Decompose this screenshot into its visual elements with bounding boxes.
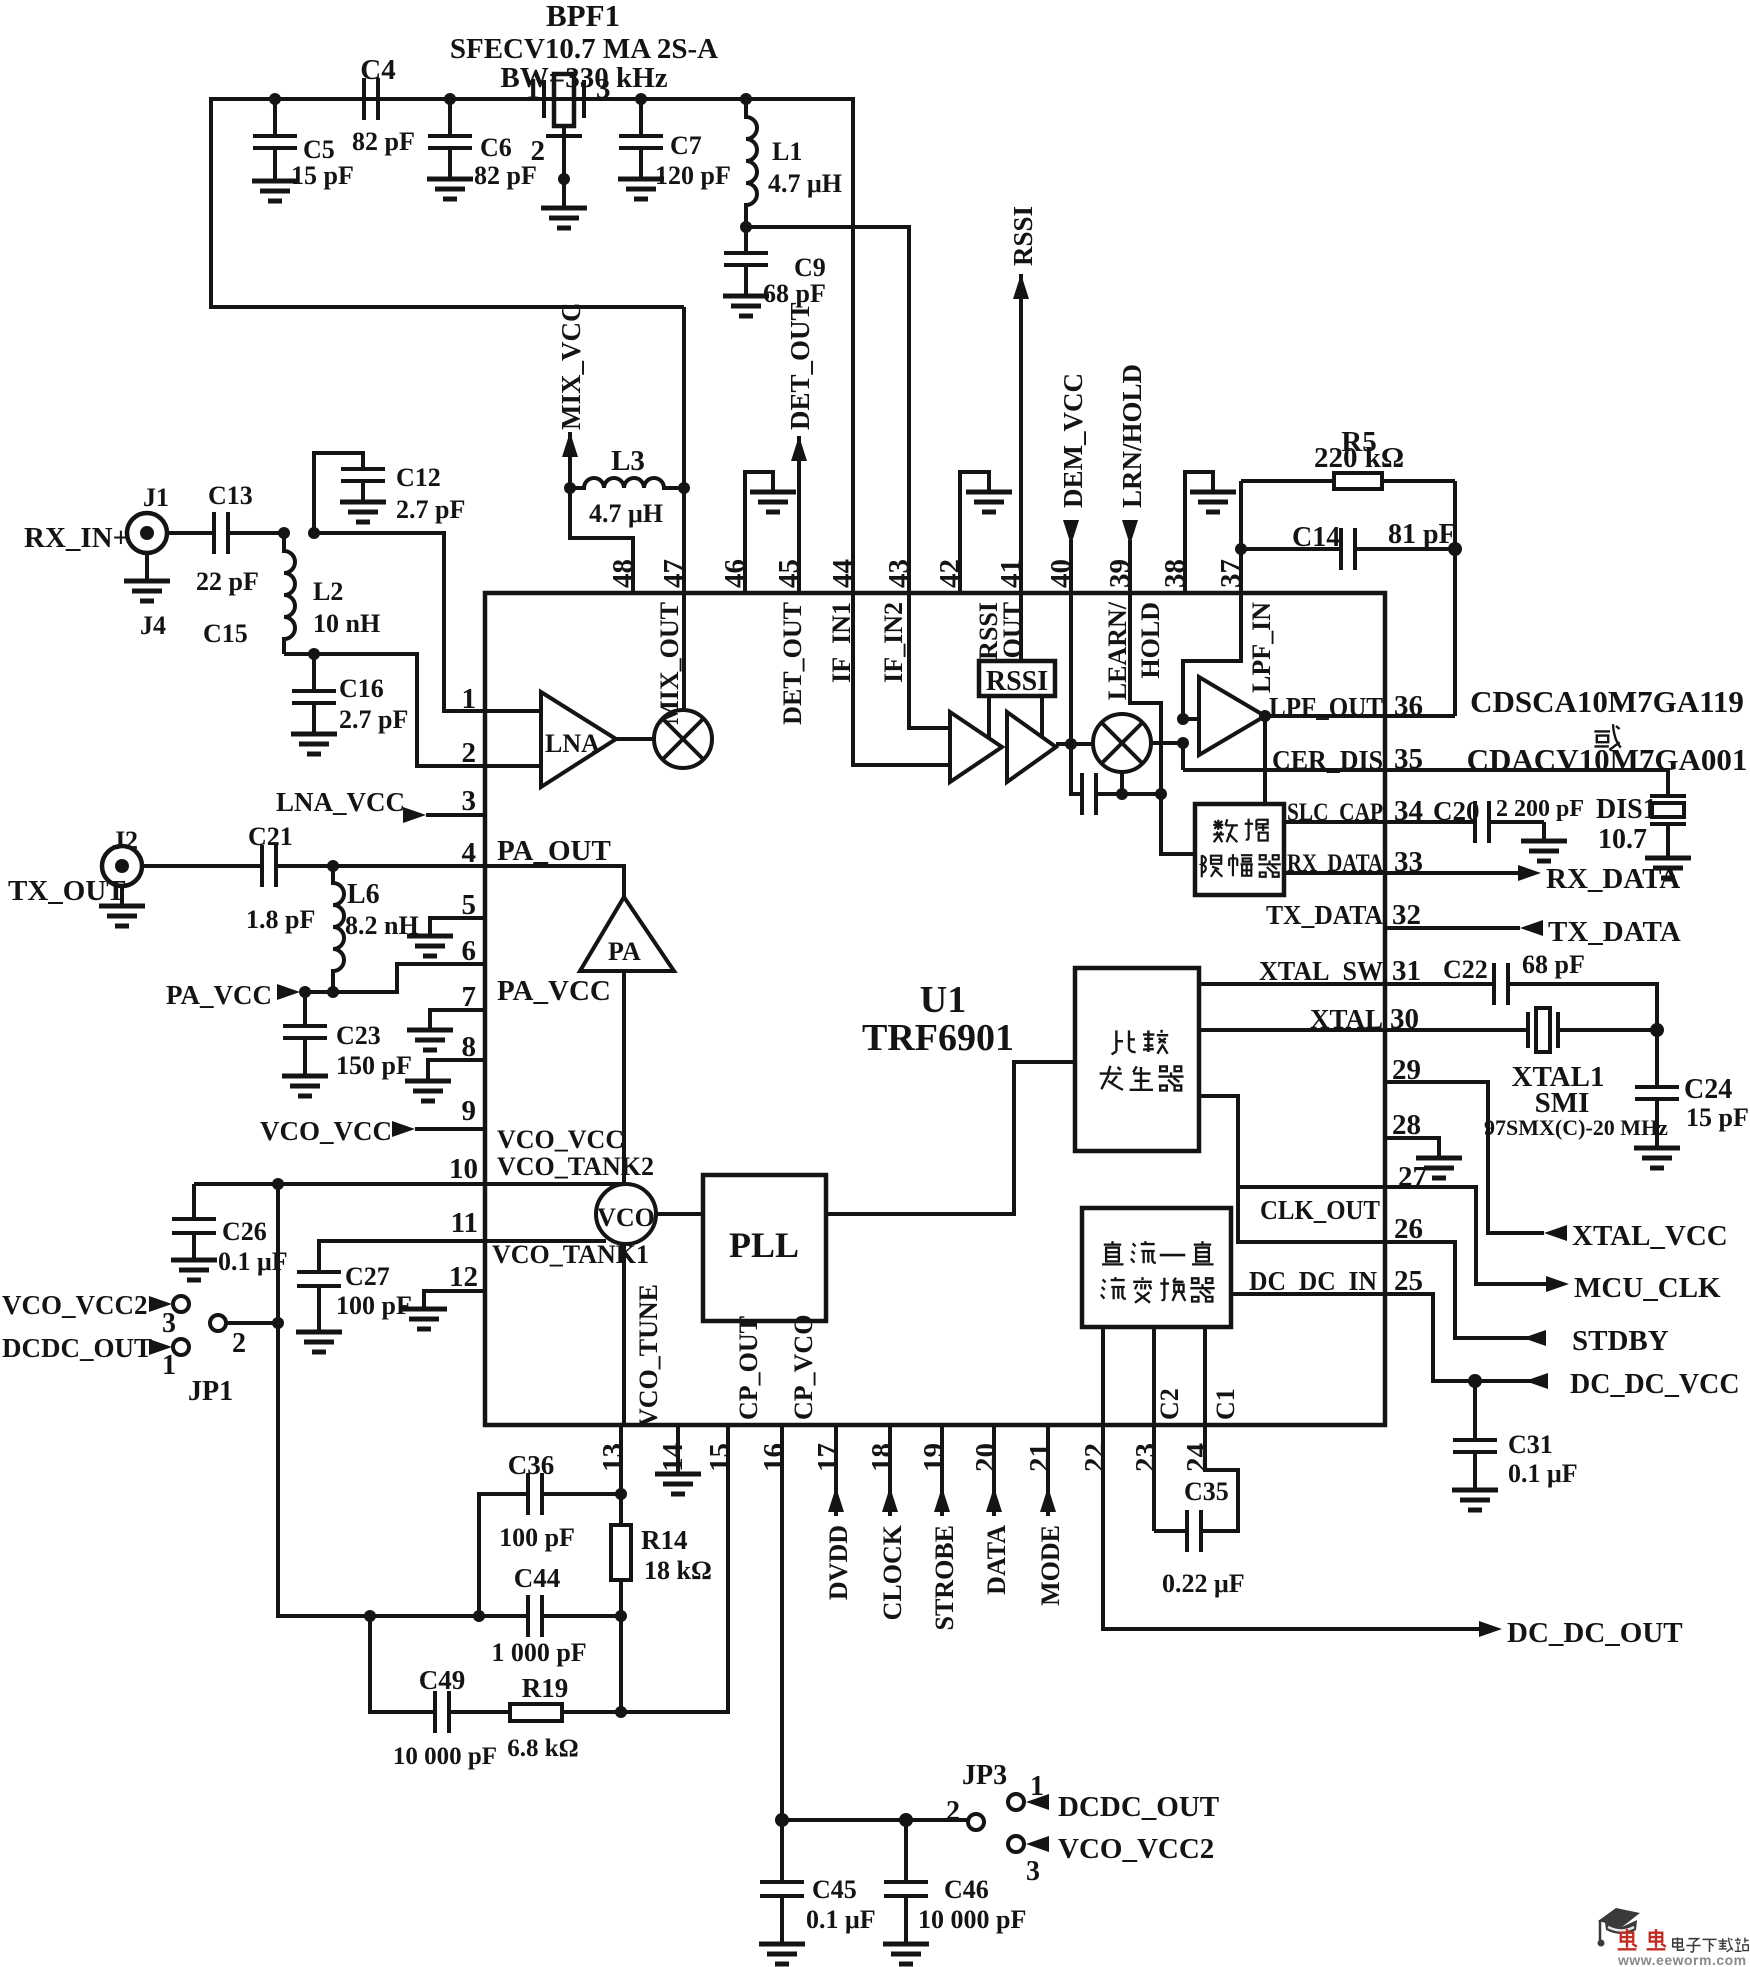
ground — [252, 181, 298, 201]
svg-text:HOLD: HOLD — [1136, 602, 1165, 679]
svg-text:4.7 μH: 4.7 μH — [768, 169, 842, 198]
svg-text:18: 18 — [866, 1443, 898, 1472]
wire pin 44 to IF amp — [853, 593, 950, 765]
svg-text:DC_DC_IN: DC_DC_IN — [1249, 1266, 1377, 1296]
capacitor C14 — [1241, 547, 1341, 551]
svg-text:10.7: 10.7 — [1598, 824, 1647, 855]
node LPF amp input — [1177, 713, 1189, 725]
capacitor C5 — [273, 99, 277, 136]
ground — [655, 1474, 701, 1494]
svg-text:10 nH: 10 nH — [313, 609, 380, 638]
arrow LRN/HOLD pin 39 — [1130, 540, 1195, 854]
wire pin 24 C35 — [1201, 1425, 1238, 1531]
ground — [1645, 858, 1691, 878]
wire XTAL_SW inside — [1199, 982, 1385, 986]
wire pin 23 C35 — [1152, 1425, 1156, 1531]
ground — [401, 1309, 447, 1329]
node C12 branch — [308, 527, 320, 539]
svg-text:JP3: JP3 — [962, 1760, 1007, 1791]
svg-text:RSSI: RSSI — [986, 666, 1048, 697]
capacitor C13 — [212, 512, 216, 554]
capacitor C9 — [744, 227, 748, 253]
wire pin 13 — [619, 1425, 623, 1494]
wire pin 28 ground stub — [1385, 1138, 1439, 1156]
wire DC_DC_IN inside — [1231, 1292, 1385, 1296]
wire top loop — [211, 99, 853, 593]
ground — [171, 1260, 217, 1280]
svg-text:44: 44 — [827, 559, 859, 588]
ground — [618, 179, 664, 199]
svg-text:DVDD: DVDD — [824, 1525, 853, 1600]
wire pin 29 to XTAL_VCC — [1385, 1082, 1544, 1233]
wire pin 4 to PA — [485, 866, 624, 897]
watermark chongchong text — [1618, 1929, 1666, 1949]
svg-text:10 000 pF: 10 000 pF — [918, 1905, 1026, 1934]
capacitor C22 — [1492, 963, 1496, 1005]
svg-text:STDBY: STDBY — [1572, 1325, 1669, 1357]
wire R14 node down — [619, 1616, 623, 1712]
wire XTAL_SW pin 31 — [1385, 982, 1494, 986]
wire SLC_CAP pin 34 — [1284, 820, 1475, 824]
wire pin 42 ground stub — [960, 472, 989, 593]
wire pin2 to LNA — [485, 764, 541, 768]
svg-text:RSSI: RSSI — [1008, 206, 1038, 266]
svg-text:22: 22 — [1079, 1443, 1111, 1472]
node C49 branch — [364, 1610, 376, 1622]
node L1 top — [740, 93, 752, 105]
svg-text:1 000 pF: 1 000 pF — [491, 1638, 586, 1667]
svg-text:C27: C27 — [345, 1262, 390, 1291]
svg-text:LEARN/: LEARN/ — [1103, 601, 1132, 700]
node LPF out — [1259, 710, 1271, 722]
ground J4 — [124, 581, 170, 601]
ground — [291, 734, 337, 754]
svg-text:C7: C7 — [670, 131, 702, 160]
svg-text:www.eeworm.com: www.eeworm.com — [1617, 1952, 1747, 1967]
svg-text:C9: C9 — [794, 253, 826, 282]
wire J2 to C21 — [142, 864, 262, 868]
svg-text:U1: U1 — [920, 979, 966, 1021]
svg-text:XTAL_VCC: XTAL_VCC — [1572, 1220, 1728, 1252]
svg-text:DEM_VCC: DEM_VCC — [1058, 373, 1088, 508]
resistor R19 — [510, 1704, 562, 1721]
svg-text:STROBE: STROBE — [930, 1525, 959, 1631]
connector JP3 pin3 — [1008, 1836, 1024, 1852]
amplifier PA — [580, 897, 674, 971]
wire XTAL inside — [1199, 1028, 1385, 1032]
wire LPF_IN jog pin 37 — [1183, 593, 1241, 719]
ground — [541, 208, 587, 228]
svg-text:7: 7 — [462, 981, 477, 1013]
svg-text:J2: J2 — [112, 826, 138, 855]
svg-text:C2: C2 — [1155, 1388, 1184, 1420]
capacitor C23 — [303, 992, 307, 1026]
svg-text:100 pF: 100 pF — [499, 1523, 575, 1552]
node C44 left — [473, 1610, 485, 1622]
arrowhead STROBE — [934, 1487, 950, 1512]
node C36 right — [615, 1488, 627, 1500]
wire CER_DIS pin 35 — [1183, 770, 1668, 796]
svg-text:82 pF: 82 pF — [474, 161, 537, 190]
capacitor C12 — [341, 467, 385, 471]
inductor L3 — [570, 478, 684, 488]
svg-text:1: 1 — [162, 1350, 176, 1381]
svg-text:VCO_VCC2: VCO_VCC2 — [1058, 1833, 1214, 1865]
crystal XTAL1 — [1526, 1012, 1530, 1048]
svg-text:3: 3 — [1026, 1856, 1040, 1887]
svg-text:C31: C31 — [1508, 1430, 1553, 1459]
label data limiter — [1202, 819, 1281, 878]
wire to pin 1 — [314, 533, 485, 711]
svg-text:1.8 pF: 1.8 pF — [246, 905, 315, 934]
svg-text:MCU_CLK: MCU_CLK — [1574, 1272, 1721, 1304]
wire pin 43 to IF amp — [909, 593, 950, 728]
svg-text:15 pF: 15 pF — [291, 161, 354, 190]
svg-text:DET_OUT: DET_OUT — [778, 602, 807, 725]
wire to pin 2 — [314, 654, 485, 766]
svg-text:DC_DC_OUT: DC_DC_OUT — [1507, 1617, 1683, 1649]
connector J1 — [127, 513, 167, 553]
svg-text:DCDC_OUT: DCDC_OUT — [2, 1333, 152, 1363]
svg-text:3: 3 — [462, 785, 477, 817]
svg-text:C13: C13 — [208, 481, 253, 510]
wire mixer bottom — [1120, 772, 1124, 794]
wire to LPF amp — [1183, 717, 1199, 721]
mixer M2 — [1093, 714, 1151, 772]
svg-text:2: 2 — [946, 1796, 960, 1827]
node BPF out — [635, 93, 647, 105]
ground — [99, 906, 145, 926]
capacitor C7 — [639, 99, 643, 136]
arrow DCDC_OUT jp3 — [1026, 1794, 1049, 1810]
wire pin1 to LNA — [485, 709, 541, 713]
svg-text:12: 12 — [449, 1261, 478, 1293]
svg-text:15 pF: 15 pF — [1686, 1103, 1749, 1132]
svg-text:MIX_VCC: MIX_VCC — [556, 303, 586, 431]
capacitor C16 — [312, 654, 316, 691]
svg-text:C35: C35 — [1184, 1477, 1229, 1506]
svg-text:PA_VCC: PA_VCC — [497, 975, 611, 1007]
svg-text:C20: C20 — [1433, 796, 1480, 826]
arrow DET_OUT pin 45 — [797, 436, 801, 593]
wire LPF_OUT pin 36 — [1265, 714, 1455, 718]
svg-text:2.7 pF: 2.7 pF — [396, 495, 465, 524]
resistor R5 — [1241, 479, 1334, 483]
wire pin 22 to DC_DC_OUT — [1103, 1425, 1479, 1629]
connector JP3 pin2 — [968, 1814, 984, 1830]
svg-text:PLL: PLL — [729, 1225, 799, 1265]
svg-text:2 200 pF: 2 200 pF — [1496, 796, 1584, 822]
arrow DATA pin 20 — [992, 1425, 996, 1516]
svg-text:PA_VCC: PA_VCC — [166, 980, 272, 1010]
wire pin 27 to MCU_CLK — [1385, 1187, 1546, 1284]
svg-text:LNA_VCC: LNA_VCC — [276, 787, 405, 817]
wire pin 25 to DC_DC_VCC — [1385, 1294, 1548, 1381]
svg-text:CDSCA10M7GA119: CDSCA10M7GA119 — [1470, 684, 1744, 719]
svg-text:SFECV10.7 MA 2S-A: SFECV10.7 MA 2S-A — [450, 33, 718, 65]
pin 2 of BPF1 — [562, 126, 566, 136]
capacitor C6 — [448, 99, 452, 136]
svg-text:C12: C12 — [396, 463, 441, 492]
node L2 top — [278, 527, 290, 539]
svg-text:C4: C4 — [360, 54, 395, 86]
arrowhead CLOCK — [882, 1487, 898, 1512]
node C16 top — [308, 648, 320, 660]
wire comparator to pins 27 26 — [1199, 1096, 1385, 1242]
wire PA to VCO — [622, 971, 626, 1184]
connector JP1 pin2 — [226, 1321, 278, 1325]
capacitor C46 — [904, 1820, 908, 1882]
svg-text:220 kΩ: 220 kΩ — [1314, 442, 1404, 474]
wire VCO tune down — [622, 1244, 626, 1425]
wire XTAL pin 30 — [1385, 1028, 1528, 1032]
svg-text:IF_IN2: IF_IN2 — [879, 602, 908, 683]
svg-text:TX_OUT: TX_OUT — [8, 875, 126, 907]
capacitor C4 — [355, 97, 364, 101]
amplifier LNA — [541, 692, 616, 787]
node L3 left — [564, 482, 576, 494]
node C44 right — [615, 1610, 627, 1622]
svg-text:8.2 nH: 8.2 nH — [345, 911, 419, 940]
amplifier LPF — [1199, 677, 1265, 755]
node DEM_VCC — [1065, 738, 1077, 750]
svg-text:VCO_TANK2: VCO_TANK2 — [497, 1152, 654, 1181]
ground — [1634, 1148, 1680, 1168]
ground — [282, 1076, 328, 1096]
svg-text:14: 14 — [657, 1443, 689, 1472]
node C6 top — [444, 93, 456, 105]
label comparator — [1100, 1030, 1184, 1091]
svg-text:C44: C44 — [514, 1563, 561, 1593]
wire JP1 vertical — [278, 1184, 370, 1616]
wire pin 16 down — [780, 1425, 784, 1820]
svg-text:L1: L1 — [772, 137, 802, 166]
arrow STROBE pin 19 — [940, 1425, 944, 1516]
svg-text:LNA: LNA — [545, 729, 600, 758]
wire TX_DATA pin 32 — [1385, 926, 1520, 930]
arrow MODE pin 21 — [1046, 1425, 1050, 1516]
node C31 — [1468, 1374, 1482, 1388]
connector J2 — [102, 846, 142, 886]
svg-text:VCO_VCC: VCO_VCC — [260, 1116, 392, 1146]
svg-text:C15: C15 — [203, 619, 248, 648]
svg-text:VCO_VCC: VCO_VCC — [497, 1125, 624, 1154]
wire pin 46 ground stub — [745, 472, 773, 593]
crystal DIS1 — [1650, 794, 1686, 798]
svg-text:L3: L3 — [611, 445, 645, 477]
wire pin 47 line — [682, 307, 686, 710]
svg-text:J1: J1 — [143, 483, 169, 512]
wire RSSI stub right — [1040, 696, 1044, 738]
node XTAL right — [1650, 1023, 1664, 1037]
ground — [759, 1944, 805, 1964]
svg-text:18 kΩ: 18 kΩ — [644, 1556, 712, 1585]
svg-text:22 pF: 22 pF — [196, 567, 259, 596]
arrowhead DVDD — [828, 1487, 844, 1512]
svg-text:LRN/HOLD: LRN/HOLD — [1117, 364, 1147, 508]
svg-text:C49: C49 — [419, 1665, 466, 1695]
node PA_VCC — [299, 986, 311, 998]
wire pin 14 ground stub — [676, 1425, 680, 1472]
svg-text:DET_OUT: DET_OUT — [785, 302, 815, 430]
svg-text:24: 24 — [1181, 1443, 1213, 1472]
SEC_INSIDE — [1183, 473, 1691, 1510]
wire mixer right up — [1151, 743, 1183, 770]
svg-text:1: 1 — [526, 73, 541, 105]
svg-text:RX_DATA: RX_DATA — [1546, 863, 1680, 895]
svg-text:L2: L2 — [313, 577, 343, 606]
wire pin 48 jog — [570, 488, 633, 593]
svg-text:82 pF: 82 pF — [352, 127, 415, 156]
ground — [407, 936, 453, 956]
wire C13 to node — [228, 531, 284, 535]
watermark site name — [1673, 1937, 1749, 1952]
svg-text:0.1 μF: 0.1 μF — [1508, 1459, 1578, 1488]
wire RX_DATA pin 33 — [1284, 871, 1518, 875]
wire pin 12 ground stub — [424, 1291, 485, 1307]
svg-text:TX_DATA: TX_DATA — [1266, 900, 1383, 930]
svg-text:9: 9 — [462, 1095, 477, 1127]
capacitor C45 — [780, 1820, 784, 1882]
svg-text:C24: C24 — [1684, 1074, 1732, 1105]
resistor R14 — [619, 1494, 623, 1525]
svg-text:TRF6901: TRF6901 — [862, 1017, 1014, 1059]
svg-text:DATA: DATA — [982, 1525, 1011, 1595]
wire pin 10 — [485, 1182, 624, 1186]
svg-text:100 pF: 100 pF — [336, 1291, 412, 1320]
mixer M1 — [654, 710, 712, 768]
node C5 top — [269, 93, 281, 105]
capacitor C26 — [172, 1217, 216, 1221]
wire pin 10 to C26 — [194, 1182, 485, 1186]
svg-text:JP1: JP1 — [188, 1376, 233, 1407]
svg-text:BPF1: BPF1 — [546, 0, 620, 33]
svg-text:C5: C5 — [303, 135, 335, 164]
svg-text:C46: C46 — [944, 1875, 989, 1904]
arrow DEM_VCC pin 40 — [1069, 540, 1073, 747]
svg-text:R19: R19 — [522, 1673, 569, 1703]
node L3 right — [678, 482, 690, 494]
inductor L6 — [333, 866, 344, 992]
node L1 bottom — [740, 221, 752, 233]
amplifier IF2 — [1007, 712, 1056, 782]
svg-text:PA_OUT: PA_OUT — [497, 835, 611, 867]
ground — [1521, 841, 1567, 861]
svg-text:0.22 μF: 0.22 μF — [1162, 1569, 1245, 1598]
ground — [750, 492, 796, 512]
wire pin 37 to R5 loop — [1239, 481, 1243, 593]
svg-text:21: 21 — [1024, 1443, 1056, 1472]
arrow DVDD pin 17 — [834, 1425, 838, 1516]
svg-text:11: 11 — [451, 1207, 478, 1239]
wire R5 loop right — [1453, 481, 1457, 716]
svg-text:C26: C26 — [222, 1217, 267, 1246]
wire pin 26 to STDBY — [1385, 1242, 1546, 1338]
ground — [883, 1944, 929, 1964]
circle VCO — [596, 1184, 656, 1244]
wire C49 branch — [370, 1616, 435, 1712]
arrow RSSI pin 41 — [1019, 274, 1023, 661]
svg-text:17: 17 — [812, 1443, 844, 1472]
svg-text:TX_DATA: TX_DATA — [1548, 916, 1681, 948]
svg-text:MIX_OUT: MIX_OUT — [655, 602, 684, 725]
svg-text:VCO_TUNE: VCO_TUNE — [634, 1284, 663, 1427]
wire RSSI stub left — [987, 696, 991, 737]
connector JP1 pin1 — [173, 1339, 189, 1355]
wire PLL to comparator — [826, 1062, 1075, 1214]
capacitor C21 — [260, 845, 264, 887]
wire pin 8 ground stub — [428, 1060, 485, 1079]
svg-text:15: 15 — [704, 1443, 736, 1472]
svg-text:C22: C22 — [1443, 955, 1488, 984]
svg-text:XTAL_SW: XTAL_SW — [1259, 956, 1383, 986]
block PLL — [703, 1175, 826, 1321]
arrowhead DATA — [986, 1487, 1002, 1512]
svg-text:19: 19 — [918, 1443, 950, 1472]
svg-text:6: 6 — [462, 935, 477, 967]
ground — [723, 296, 769, 316]
wire C2 C1 pins down — [1101, 1327, 1105, 1425]
node JP1 branch — [272, 1178, 284, 1190]
svg-text:97SMX(C)-20 MHz: 97SMX(C)-20 MHz — [1484, 1115, 1668, 1140]
svg-text:6.8 kΩ: 6.8 kΩ — [507, 1735, 578, 1762]
wire to pin 43 — [746, 227, 909, 593]
wire LPF out to slicer — [1263, 716, 1267, 804]
wire JP1 row to C44 node — [370, 1614, 479, 1618]
wire C45 to JP3 — [782, 1818, 968, 1822]
wire to pin 15 — [621, 1425, 728, 1712]
ground — [340, 502, 386, 522]
svg-text:1: 1 — [1030, 1771, 1044, 1802]
svg-text:CLOCK: CLOCK — [878, 1524, 907, 1620]
wire pin 11 — [485, 1239, 606, 1243]
ground — [1452, 1490, 1498, 1510]
svg-text:13: 13 — [597, 1443, 629, 1472]
wire C21 to pin 4 — [276, 864, 485, 868]
svg-text:150 pF: 150 pF — [336, 1051, 412, 1080]
svg-text:VCO_VCC2: VCO_VCC2 — [2, 1290, 148, 1320]
svg-text:C21: C21 — [248, 822, 293, 851]
node R19 right — [615, 1706, 627, 1718]
svg-text:81 pF: 81 pF — [1388, 519, 1456, 550]
svg-text:J4: J4 — [140, 611, 166, 640]
svg-text:0.1 μF: 0.1 μF — [806, 1905, 876, 1934]
svg-text:R14: R14 — [641, 1525, 688, 1555]
svg-text:8: 8 — [462, 1031, 477, 1063]
svg-text:2.7 pF: 2.7 pF — [339, 705, 408, 734]
svg-text:68 pF: 68 pF — [1522, 950, 1585, 979]
wire LNA to mixer — [616, 737, 654, 741]
svg-text:23: 23 — [1130, 1443, 1162, 1472]
svg-text:3: 3 — [162, 1308, 176, 1339]
wire pin 11 to C27 — [319, 1241, 485, 1272]
block RSSI — [979, 661, 1055, 696]
ground — [1416, 1158, 1462, 1178]
watermark logo cap — [1598, 1908, 1641, 1947]
svg-text:CP_OUT: CP_OUT — [734, 1316, 763, 1420]
SEC_TOPFILTER — [124, 453, 485, 766]
block comparator generator — [1075, 968, 1199, 1151]
ground — [407, 1030, 453, 1050]
svg-text:10: 10 — [449, 1153, 478, 1185]
svg-text:C36: C36 — [508, 1450, 555, 1480]
svg-text:L6: L6 — [347, 879, 380, 910]
svg-text:PA: PA — [608, 937, 641, 966]
svg-text:120 pF: 120 pF — [655, 161, 731, 190]
SEC_RXIN — [99, 787, 485, 1146]
wire pin 5 ground stub — [430, 918, 485, 934]
filter BPF1 — [542, 80, 546, 118]
